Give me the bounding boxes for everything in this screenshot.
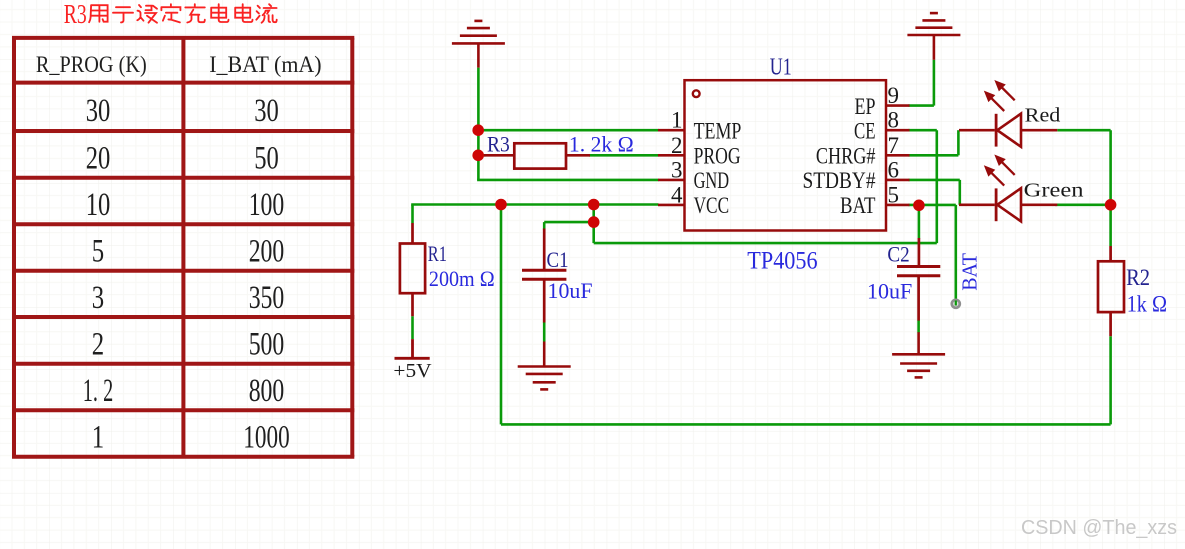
wire R2 bottom riser [1109, 336, 1112, 424]
svg-text:10uF: 10uF [548, 278, 593, 303]
node BAT terminal circle [952, 300, 960, 308]
U1 pin 5 stub [886, 204, 910, 207]
table: R_PROG vs I_BAT [12, 38, 354, 457]
U1 pin 4 stub [658, 204, 685, 207]
resistor R3 [484, 143, 590, 168]
svg-text:500: 500 [249, 326, 285, 362]
node junction pin2/R3 [472, 150, 484, 162]
wire pin8 CE stub [909, 129, 937, 132]
svg-text:7: 7 [888, 133, 900, 158]
svg-text:Red: Red [1025, 106, 1061, 127]
wire gnd-TR drop [933, 60, 936, 106]
wire BAT net drop [954, 205, 957, 304]
U1 pin 9 stub [886, 104, 910, 107]
svg-text:6: 6 [888, 157, 900, 182]
resistor R1 [400, 223, 425, 316]
svg-text:20: 20 [86, 140, 111, 176]
svg-text:BAT: BAT [840, 193, 876, 218]
svg-text:CSDN @The_xzs: CSDN @The_xzs [1021, 517, 1177, 539]
wire green LED right [1055, 204, 1111, 207]
svg-text:CE: CE [854, 119, 876, 144]
U1 pin 7 stub [886, 154, 910, 157]
svg-text:30: 30 [86, 93, 111, 129]
svg-text:8: 8 [888, 108, 900, 133]
svg-text:5: 5 [92, 234, 104, 270]
wire R3 right to pin2 [589, 154, 659, 157]
U1 pin 2 stub [658, 154, 685, 157]
wire CE branch up [935, 130, 938, 243]
svg-text:TEMP: TEMP [694, 119, 742, 144]
U1 pin 6 stub [886, 179, 910, 182]
svg-text:9: 9 [888, 83, 900, 108]
svg-text:VCC: VCC [694, 193, 730, 218]
node junction pin1/TEMP-GND [472, 124, 484, 136]
wire C2 bottom [917, 320, 920, 332]
svg-text:R3: R3 [487, 131, 510, 156]
svg-text:200m Ω: 200m Ω [429, 266, 495, 291]
wire pin5 BAT row [909, 204, 956, 207]
svg-text:30: 30 [254, 93, 279, 129]
wire C1 top vertical [543, 222, 546, 229]
svg-text:C2: C2 [887, 242, 909, 267]
wire left drop x501 [500, 205, 503, 425]
svg-text:5: 5 [888, 182, 900, 207]
U1 pin 3 stub [658, 179, 685, 182]
wire pin6 STDBY row [909, 179, 960, 182]
wire VCC rail [411, 203, 658, 206]
svg-text:1. 2k Ω: 1. 2k Ω [569, 132, 634, 157]
resistor R2 [1098, 246, 1124, 336]
capacitor C1 [522, 229, 566, 323]
U1 pin-1 marker circle [693, 90, 700, 97]
node junction LED cathode / R2 [1105, 199, 1117, 211]
svg-text:1: 1 [671, 108, 683, 133]
svg-text:100: 100 [249, 187, 285, 223]
wire CE branch down [592, 205, 595, 244]
svg-text:R_PROG (K): R_PROG (K) [36, 52, 147, 78]
ground (top right, EP net) [907, 13, 960, 60]
svg-text:1000: 1000 [243, 420, 289, 456]
wire R3 left stub [477, 154, 485, 157]
+5V power symbol [395, 339, 430, 358]
svg-text:2: 2 [92, 326, 104, 362]
wire pin7 up to red LED [957, 130, 960, 155]
node junction C1 branch [588, 216, 600, 228]
ground (below C2) [892, 332, 945, 377]
svg-text:200: 200 [249, 234, 285, 270]
svg-text:STDBY#: STDBY# [803, 168, 876, 193]
wire R2 top [1109, 205, 1112, 246]
svg-text:R3: R3 [64, 0, 87, 29]
wire pin1 TEMP row [477, 129, 658, 132]
wire red LED right [1057, 129, 1110, 132]
wire pin7 CHRG row [909, 154, 959, 157]
svg-text:3: 3 [671, 157, 683, 182]
svg-text:2: 2 [671, 133, 683, 158]
U1 pin 1 stub [658, 129, 685, 132]
wire gnd-TL vertical [477, 68, 480, 180]
node junction BAT pin5 [913, 200, 925, 212]
svg-text:EP: EP [855, 94, 876, 119]
svg-text:TP4056: TP4056 [747, 248, 817, 275]
LED D-green emission arrows [985, 156, 1015, 186]
svg-text:U1: U1 [770, 54, 792, 80]
ground (below C1) [518, 342, 571, 390]
U1 pin 8 stub [886, 129, 910, 132]
op IC U1 TP4056 body [685, 80, 887, 230]
svg-text:CHRG#: CHRG# [816, 144, 876, 169]
svg-text:I_BAT (mA): I_BAT (mA) [209, 52, 321, 78]
svg-text:50: 50 [254, 140, 279, 176]
capacitor C2 [897, 238, 940, 321]
svg-text:10: 10 [86, 187, 111, 223]
svg-text:Green: Green [1024, 181, 1084, 202]
LED D-red emission arrows [985, 81, 1015, 111]
wire R1 bottom [411, 316, 414, 339]
svg-text:C1: C1 [547, 247, 569, 272]
svg-text:GND: GND [694, 168, 730, 193]
wire bottom rail [501, 423, 1111, 426]
svg-text:10uF: 10uF [867, 278, 912, 303]
svg-text:+5V: +5V [393, 360, 431, 382]
svg-text:4: 4 [671, 182, 683, 207]
svg-text:1: 1 [92, 420, 104, 456]
LED D-red [959, 114, 1057, 147]
node junction VCC rail / C1-CE branch [588, 199, 600, 211]
svg-text:350: 350 [249, 280, 285, 316]
wire C1 bottom [543, 322, 546, 342]
wire pin9 EP row [909, 104, 934, 107]
wire C1 top horizontal [544, 221, 594, 224]
svg-text:800: 800 [249, 373, 285, 409]
wire CE branch across [594, 242, 937, 245]
ground (top left, above pin3 net) [452, 21, 505, 68]
svg-text:1k Ω: 1k Ω [1127, 291, 1167, 316]
svg-text:1. 2: 1. 2 [83, 373, 113, 409]
svg-text:R1: R1 [428, 241, 447, 266]
svg-text:3: 3 [92, 280, 104, 316]
node junction VCC rail / bottom loop [495, 199, 507, 211]
svg-text:PROG: PROG [694, 144, 741, 169]
wire LED column [1109, 130, 1112, 205]
svg-text:BAT: BAT [958, 253, 982, 291]
svg-text:R2: R2 [1126, 265, 1150, 290]
wire pin6 down to green LED [958, 180, 961, 205]
wire C2 top [918, 205, 921, 239]
LED D-green [959, 188, 1057, 221]
wire R1 top [411, 205, 414, 224]
wire pin3 GND row [477, 179, 658, 182]
